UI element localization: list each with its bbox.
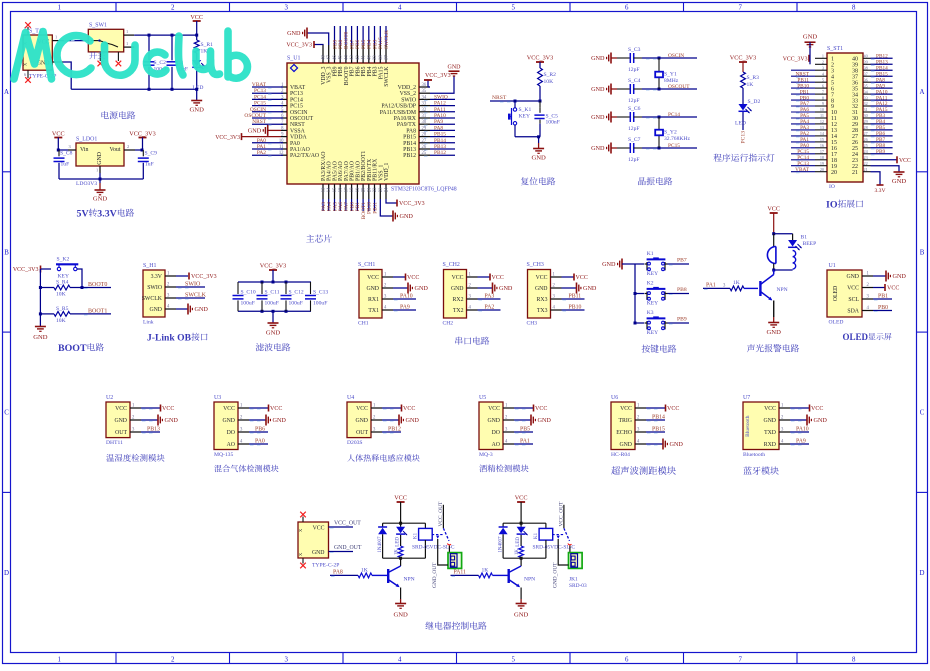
net label PA8 xyxy=(330,569,358,576)
svg-text:PA11: PA11 xyxy=(434,107,446,113)
svg-text:PB5: PB5 xyxy=(520,427,530,433)
svg-text:PB0: PB0 xyxy=(878,305,888,311)
power VCC_3V3 pin1 xyxy=(783,55,809,63)
svg-text:2: 2 xyxy=(171,657,175,664)
capacitor C3 xyxy=(167,35,189,89)
svg-text:1: 1 xyxy=(57,657,61,664)
wire emitter xyxy=(520,588,522,604)
svg-text:SWIO: SWIO xyxy=(401,97,416,103)
svg-text:VCC_3V3: VCC_3V3 xyxy=(215,135,240,141)
svg-text:OSCIN: OSCIN xyxy=(668,53,684,59)
svg-text:VCC_3V3: VCC_3V3 xyxy=(13,267,39,273)
svg-text:BOOT: BOOT xyxy=(58,343,87,354)
svg-text:11: 11 xyxy=(820,113,824,118)
net label PB7 xyxy=(871,137,893,143)
svg-text:32: 32 xyxy=(864,101,868,106)
svg-text:2: 2 xyxy=(822,60,824,65)
net label SWIO xyxy=(424,94,455,100)
wire switch to connector xyxy=(569,546,570,557)
svg-text:VCC: VCC xyxy=(535,406,547,412)
svg-text:PC13: PC13 xyxy=(254,88,266,94)
svg-text:GND: GND xyxy=(93,196,108,203)
caption 按键电路 xyxy=(642,345,650,353)
power VCC_3V3 VDDA xyxy=(215,133,281,141)
svg-text:43: 43 xyxy=(350,55,355,60)
svg-text:MQ-3: MQ-3 xyxy=(479,452,493,458)
net label PA6 xyxy=(338,199,344,211)
svg-text:2: 2 xyxy=(171,5,175,12)
svg-text:S_H1: S_H1 xyxy=(143,263,156,269)
wire top rail xyxy=(503,522,546,525)
resistor S_R3 xyxy=(741,72,760,88)
svg-text:GND: GND xyxy=(892,178,907,185)
svg-text:7: 7 xyxy=(738,657,742,664)
svg-text:VCC: VCC xyxy=(407,275,419,281)
svg-text:3.3V: 3.3V xyxy=(151,274,163,280)
svg-text:PC14: PC14 xyxy=(290,97,303,103)
net label SWIO xyxy=(176,282,205,289)
power VCC_3V3 VDD_3 xyxy=(286,41,323,49)
net label PA15 xyxy=(378,26,384,49)
net label GND_OUT xyxy=(329,545,362,553)
svg-text:TYPE-C-2P: TYPE-C-2P xyxy=(312,563,339,569)
svg-text:42: 42 xyxy=(356,55,361,60)
svg-text:PB7: PB7 xyxy=(677,258,687,264)
ground xyxy=(382,415,419,426)
svg-text:21: 21 xyxy=(852,170,858,176)
svg-text:27: 27 xyxy=(422,139,427,144)
svg-text:1: 1 xyxy=(55,35,57,40)
svg-text:PA1: PA1 xyxy=(257,144,266,150)
power VCC xyxy=(393,274,419,282)
svg-text:HC-R04: HC-R04 xyxy=(611,452,630,458)
pushbutton S_K1 xyxy=(508,100,531,137)
svg-text:VCC: VCC xyxy=(576,275,588,281)
svg-text:PA3: PA3 xyxy=(485,294,495,300)
svg-text:PB10: PB10 xyxy=(569,305,582,311)
svg-text:GND: GND xyxy=(591,114,605,121)
svg-text:1uF: 1uF xyxy=(61,162,70,168)
connector CH3 xyxy=(527,262,562,327)
caption 电源电路 xyxy=(102,111,109,119)
resistor 1K base xyxy=(479,567,508,577)
ground xyxy=(514,415,551,426)
svg-text:S_R2: S_R2 xyxy=(544,72,557,78)
svg-text:20: 20 xyxy=(831,170,837,176)
regulator S_LDO1 xyxy=(68,137,135,187)
svg-text:GND: GND xyxy=(248,128,262,135)
wire emitter xyxy=(400,588,402,604)
power VCC xyxy=(514,405,547,413)
svg-text:30: 30 xyxy=(422,120,427,125)
caption 超声波测距模块 xyxy=(611,466,620,474)
label 开关 xyxy=(89,52,97,59)
connector JK xyxy=(448,553,462,569)
caption 混合气体检测模块 xyxy=(214,465,222,472)
svg-text:TXD: TXD xyxy=(764,430,776,436)
header right pin wires xyxy=(863,54,871,172)
wire rail xyxy=(39,269,42,327)
svg-text:K2: K2 xyxy=(647,281,654,287)
svg-text:VCC: VCC xyxy=(492,275,504,281)
svg-text:23: 23 xyxy=(379,187,384,192)
svg-text:SCL: SCL xyxy=(848,297,859,303)
LED xyxy=(396,523,408,547)
pushbutton K1 xyxy=(645,251,668,277)
net label PA11 xyxy=(871,95,893,101)
svg-text:OSCOUT: OSCOUT xyxy=(244,113,266,119)
power VCC xyxy=(249,405,282,413)
caption 主芯片 xyxy=(306,235,314,243)
svg-text:36: 36 xyxy=(864,77,868,82)
resistor 1K xyxy=(395,546,404,558)
svg-text:OSCIN: OSCIN xyxy=(290,110,308,116)
net label PC13 xyxy=(252,88,283,94)
svg-text:CH3: CH3 xyxy=(527,321,538,327)
wire T1 pin1 to SW1 xyxy=(52,35,88,41)
wire xyxy=(135,149,144,152)
svg-text:RXD: RXD xyxy=(764,442,776,448)
svg-text:VCC: VCC xyxy=(190,14,203,21)
svg-text:U4: U4 xyxy=(347,395,354,401)
svg-text:S_C6: S_C6 xyxy=(628,106,641,112)
svg-text:GND: GND xyxy=(514,612,529,619)
power VCC xyxy=(478,274,504,282)
svg-text:PB13: PB13 xyxy=(434,144,446,150)
wire xyxy=(539,86,542,103)
wire collector xyxy=(400,558,402,566)
svg-text:31: 31 xyxy=(422,114,427,119)
power VCC_3V3 xyxy=(527,55,553,69)
svg-text:GND: GND xyxy=(499,285,513,292)
wire xyxy=(77,269,82,288)
caption 复位电路 xyxy=(521,177,529,185)
svg-text:BOOT0: BOOT0 xyxy=(88,282,107,288)
net label PB1 xyxy=(873,294,892,301)
svg-text:PA9: PA9 xyxy=(434,119,443,125)
svg-text:GND: GND xyxy=(767,329,782,336)
net label PB3 xyxy=(372,26,378,49)
svg-text:PC13: PC13 xyxy=(290,91,303,97)
caption 滤波电路 xyxy=(256,343,264,351)
net label BOOT0 xyxy=(344,26,350,49)
svg-text:S_U1: S_U1 xyxy=(287,56,300,62)
svg-text:GND: GND xyxy=(448,65,462,71)
svg-text:DO: DO xyxy=(492,430,500,436)
svg-text:13: 13 xyxy=(322,187,327,192)
ground xyxy=(249,415,286,426)
net label PB1 xyxy=(796,89,809,95)
net label BOOT1 xyxy=(361,199,367,219)
wire xyxy=(635,322,644,324)
svg-text:GND: GND xyxy=(591,55,605,62)
svg-text:PB12: PB12 xyxy=(403,153,416,159)
no-connect mark xyxy=(98,61,104,67)
svg-text:GND: GND xyxy=(451,286,464,292)
net label PA1 xyxy=(796,137,809,143)
svg-text:TX3: TX3 xyxy=(537,308,548,314)
svg-text:1K: 1K xyxy=(361,567,368,573)
svg-text:A: A xyxy=(4,89,9,96)
svg-text:S_D2: S_D2 xyxy=(748,99,761,105)
svg-text:32.768KHz: 32.768KHz xyxy=(664,136,690,142)
power VCC xyxy=(141,405,174,413)
svg-text:PA8: PA8 xyxy=(333,569,343,575)
svg-text:KEY: KEY xyxy=(647,330,659,336)
wire xyxy=(635,293,644,295)
display U1 OLED xyxy=(827,263,873,326)
svg-text:LED: LED xyxy=(396,537,401,547)
power VCC_3V3 xyxy=(13,266,51,274)
svg-text:24: 24 xyxy=(385,187,390,192)
svg-text:3: 3 xyxy=(284,657,288,664)
net label PA8 xyxy=(424,125,455,131)
ground xyxy=(393,604,408,619)
power VCC xyxy=(873,284,899,292)
svg-text:CH1: CH1 xyxy=(358,321,369,327)
net label PB15 xyxy=(646,427,665,434)
svg-text:1K: 1K xyxy=(733,280,740,286)
svg-text:NRST: NRST xyxy=(290,122,305,128)
svg-text:32: 32 xyxy=(422,108,427,113)
net label PB8 xyxy=(668,287,690,294)
svg-text:21: 21 xyxy=(864,167,868,172)
svg-text:VCC_3V3: VCC_3V3 xyxy=(129,131,155,138)
svg-text:5: 5 xyxy=(511,657,515,664)
net label PB14 xyxy=(424,138,455,144)
net label PA11 xyxy=(424,107,455,113)
LED S_D2 xyxy=(735,88,760,127)
svg-text:GND: GND xyxy=(814,417,828,424)
net label OSCIN xyxy=(250,107,283,113)
power 3.3V pin21 xyxy=(871,172,886,194)
svg-text:D203S: D203S xyxy=(347,440,363,446)
svg-text:26: 26 xyxy=(422,145,427,150)
svg-text:100uF: 100uF xyxy=(313,301,327,307)
svg-text:AO: AO xyxy=(227,442,235,448)
svg-text:PA10: PA10 xyxy=(400,294,413,300)
LED D1 xyxy=(192,53,208,91)
net label PA15 xyxy=(871,107,893,113)
diode 1N4007 xyxy=(378,523,387,558)
svg-text:PB11: PB11 xyxy=(372,202,378,214)
svg-text:OSCOUT: OSCOUT xyxy=(290,116,314,122)
capacitor S_C11 xyxy=(257,282,280,311)
svg-text:1K: 1K xyxy=(515,549,520,556)
svg-text:28: 28 xyxy=(422,133,427,138)
header S_H1 J-Link xyxy=(142,263,176,326)
wire bottom rail xyxy=(71,88,197,91)
svg-text:VCC_3V3: VCC_3V3 xyxy=(730,55,756,62)
svg-text:28: 28 xyxy=(864,125,868,130)
net label PC15 xyxy=(252,101,283,107)
net label PB7 xyxy=(668,258,690,265)
diode 1N4007 xyxy=(499,523,508,558)
wire bottom rail xyxy=(772,269,792,272)
svg-text:Vin: Vin xyxy=(80,147,89,153)
header left pin wires xyxy=(791,54,827,172)
capacitor S_C9 xyxy=(138,150,157,179)
svg-text:7: 7 xyxy=(822,89,824,94)
net label PB10 xyxy=(796,83,809,89)
net label PB0 xyxy=(873,305,892,312)
wire rail xyxy=(634,264,637,325)
svg-text:PB15: PB15 xyxy=(403,135,416,141)
caption 继电器控制电路 xyxy=(425,622,433,630)
wire switch to connector xyxy=(448,546,449,557)
net label PA9 xyxy=(393,305,416,312)
net label PB5 xyxy=(361,26,367,49)
wire xyxy=(515,135,540,138)
module U2 DHT11 xyxy=(106,395,141,446)
resistor 1K base xyxy=(358,567,387,577)
net label PA3 xyxy=(321,199,327,211)
svg-text:GND: GND xyxy=(33,334,48,341)
svg-text:1: 1 xyxy=(126,29,128,34)
net label PC14 xyxy=(252,94,283,100)
svg-text:PA2: PA2 xyxy=(485,305,495,311)
resistor S_R4 xyxy=(40,280,111,298)
net label PB9 xyxy=(332,26,338,49)
relay switch xyxy=(552,528,571,545)
net label PB14 xyxy=(646,415,665,422)
ground xyxy=(478,283,513,294)
net label PB1 xyxy=(355,199,361,211)
svg-text:GND: GND xyxy=(393,612,408,619)
svg-text:1K: 1K xyxy=(482,567,489,573)
svg-text:NPN: NPN xyxy=(777,287,788,293)
svg-text:10K: 10K xyxy=(56,318,66,324)
svg-text:B1: B1 xyxy=(801,235,808,241)
net label PA9 xyxy=(424,119,455,125)
wire bottom rail xyxy=(59,173,143,181)
svg-text:19: 19 xyxy=(356,187,361,192)
capacitor S_C2 xyxy=(144,35,168,89)
net label VBAT xyxy=(252,82,283,88)
svg-text:22: 22 xyxy=(373,187,378,192)
resistor 1K xyxy=(515,546,524,558)
svg-text:VCC_3V3: VCC_3V3 xyxy=(527,55,553,62)
svg-text:U3: U3 xyxy=(214,395,221,401)
svg-text:VCC: VCC xyxy=(270,406,282,412)
svg-text:PB13: PB13 xyxy=(147,427,160,433)
svg-text:100uF: 100uF xyxy=(241,301,255,307)
svg-text:PC14: PC14 xyxy=(254,94,266,100)
svg-text:1K: 1K xyxy=(747,82,754,88)
svg-text:GND: GND xyxy=(535,286,548,292)
svg-text:GND: GND xyxy=(583,285,597,292)
svg-text:PA1: PA1 xyxy=(706,282,716,288)
svg-text:13: 13 xyxy=(820,125,824,130)
svg-text:GND: GND xyxy=(312,550,325,556)
svg-text:S_Y1: S_Y1 xyxy=(664,72,677,78)
svg-text:21: 21 xyxy=(367,187,372,192)
svg-text:PA12: PA12 xyxy=(434,101,446,107)
power VCC xyxy=(515,495,528,524)
net label PA12 xyxy=(871,101,893,107)
net label PA0 xyxy=(252,138,283,144)
ground xyxy=(767,301,782,337)
net label PB12 xyxy=(424,150,455,156)
crystal S_Y2 xyxy=(655,117,690,148)
svg-text:38: 38 xyxy=(379,55,384,60)
svg-text:RX1: RX1 xyxy=(368,297,379,303)
svg-text:20: 20 xyxy=(362,187,367,192)
net label PB13 xyxy=(424,144,455,150)
ground pin2 xyxy=(803,34,818,65)
svg-text:K1: K1 xyxy=(534,532,539,539)
ground VSS_2 xyxy=(430,65,461,94)
svg-text:PA11/USB/DM: PA11/USB/DM xyxy=(380,110,416,116)
svg-text:10: 10 xyxy=(820,107,824,112)
connector CH1 xyxy=(358,262,393,327)
svg-text:VCC: VCC xyxy=(515,495,528,502)
capacitor S_C10 xyxy=(233,282,256,311)
module U7 Bluetooth xyxy=(743,395,790,458)
svg-text:35: 35 xyxy=(864,83,868,88)
svg-text:14: 14 xyxy=(327,187,332,192)
svg-text:PB8: PB8 xyxy=(677,287,687,293)
svg-text:STM32F103C8T6_LQFP48: STM32F103C8T6_LQFP48 xyxy=(391,187,457,193)
svg-text:VCC: VCC xyxy=(313,526,325,532)
net label PB4 xyxy=(367,26,373,49)
svg-text:GND: GND xyxy=(846,274,859,280)
svg-text:VCC_3V3: VCC_3V3 xyxy=(783,56,808,62)
wire xyxy=(57,149,68,152)
wire bottom rail xyxy=(503,557,546,560)
net label PC13 xyxy=(796,161,809,167)
net label PA0 xyxy=(796,143,809,149)
svg-text:VCC: VCC xyxy=(764,406,776,412)
svg-text:RX3: RX3 xyxy=(537,297,548,303)
net label PA10 xyxy=(424,113,455,119)
svg-text:OLED: OLED xyxy=(829,320,844,326)
svg-text:39: 39 xyxy=(864,60,868,65)
net label PB10 xyxy=(562,305,585,312)
svg-text:PA8: PA8 xyxy=(434,125,443,131)
svg-text:TX2: TX2 xyxy=(453,308,464,314)
svg-text:GND: GND xyxy=(893,273,907,280)
svg-text:12pF: 12pF xyxy=(628,157,640,163)
net label PA9 xyxy=(871,83,893,89)
ground xyxy=(190,89,205,113)
connector TYPE-C-2P xyxy=(298,517,339,569)
svg-text:NRST: NRST xyxy=(492,95,507,101)
net label PA10 xyxy=(393,294,416,301)
svg-text:GND_OUT: GND_OUT xyxy=(432,562,438,588)
svg-text:100uF: 100uF xyxy=(265,301,279,307)
svg-text:VCC: VCC xyxy=(667,406,679,412)
svg-text:PC14: PC14 xyxy=(668,112,680,118)
svg-text:100nF: 100nF xyxy=(546,120,560,126)
net label VBAT xyxy=(795,167,810,173)
svg-text:VCC: VCC xyxy=(488,406,500,412)
svg-text:KEY: KEY xyxy=(519,114,531,120)
svg-text:PC15: PC15 xyxy=(290,104,303,110)
svg-text:1: 1 xyxy=(57,5,61,12)
svg-text:VCC: VCC xyxy=(223,406,235,412)
no-connect mark xyxy=(300,512,306,518)
svg-text:JK1: JK1 xyxy=(569,577,578,583)
caption 晶振电路 xyxy=(638,177,646,185)
net label PB8 xyxy=(871,143,893,149)
resistor R 1K xyxy=(730,280,758,291)
svg-text:S_CH1: S_CH1 xyxy=(358,262,375,268)
net label PA3 xyxy=(478,294,501,301)
svg-text:AO: AO xyxy=(492,442,500,448)
switch S_SW1 xyxy=(88,23,134,62)
svg-text:16: 16 xyxy=(339,187,344,192)
